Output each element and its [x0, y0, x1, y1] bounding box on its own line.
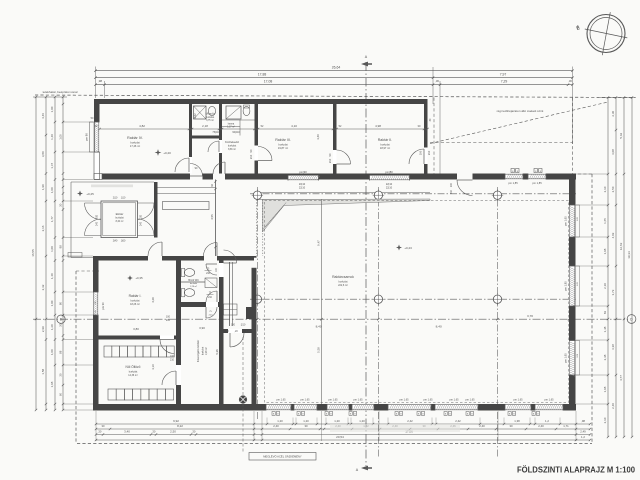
svg-text:1|60: 1|60 — [121, 240, 126, 243]
svg-text:2,10: 2,10 — [603, 283, 607, 289]
hall axis vertical center dash-dot — [377, 187, 379, 458]
door from Kozlekedo into Raktar IV — [175, 158, 189, 172]
hall axis vertical right dash-dot — [497, 187, 499, 458]
svg-text:200: 200 — [140, 214, 143, 219]
svg-text:FÖLDSZINTI ALAPRAJZ M 1:100: FÖLDSZINTI ALAPRAJZ M 1:100 — [517, 465, 635, 475]
hall east wall — [569, 174, 576, 408]
small wall x230 upper strip — [229, 262, 231, 326]
svg-text:pm 1,65: pm 1,65 — [328, 399, 338, 402]
svg-text:,98: ,98 — [98, 79, 103, 83]
washroom partition lines — [222, 126, 240, 128]
svg-text:100: 100 — [231, 324, 236, 327]
svg-text:2,16: 2,16 — [41, 225, 45, 231]
svg-text:210: 210 — [170, 358, 175, 361]
svg-text:16,55: 16,55 — [31, 249, 35, 257]
axis label D right circle — [627, 315, 636, 324]
hall column circle top left — [253, 191, 261, 199]
svg-text:telekhatár, beépítési vonal: telekhatár, beépítési vonal — [43, 90, 78, 94]
upper block left wall lower segment outline — [94, 152, 100, 180]
svg-text:1,00: 1,00 — [50, 300, 54, 306]
svg-text:8,40: 8,40 — [316, 325, 322, 329]
property boundary right dashed line upper — [572, 98, 574, 175]
Mosdo south partition wall — [192, 136, 222, 139]
svg-text:1,98: 1,98 — [603, 386, 607, 392]
svg-text:burkolat: burkolat — [115, 217, 124, 220]
hall west edge line upper — [256, 200, 258, 257]
Eloter double door west arcs — [85, 203, 102, 220]
left chain ticks — [35, 96, 37, 98]
svg-text:3,80: 3,80 — [133, 327, 139, 331]
compass inner circle — [590, 18, 622, 50]
left dimension chain lines — [35, 97, 37, 410]
east wall sill marks — [576, 205, 580, 237]
svg-text:5,42: 5,42 — [619, 133, 623, 139]
hall bottom wall pier x379 — [376, 404, 383, 411]
svg-text:75|210: 75|210 — [212, 131, 220, 134]
svg-text:2,42: 2,42 — [407, 419, 413, 423]
WC oval ffi with tank — [184, 269, 194, 277]
svg-text:3,80: 3,80 — [41, 151, 45, 157]
svg-text:3,72: 3,72 — [611, 289, 615, 295]
svg-text:240: 240 — [140, 221, 143, 226]
hall east wall window 2 — [569, 266, 576, 306]
svg-text:1,00: 1,00 — [58, 134, 62, 140]
svg-text:1,38: 1,38 — [514, 419, 520, 423]
old roof wedge shading — [263, 199, 431, 232]
svg-text:4,46: 4,46 — [41, 113, 45, 119]
svg-text:pm 1,65: pm 1,65 — [513, 399, 523, 402]
svg-text:17,88: 17,88 — [258, 72, 267, 76]
svg-text:Női Öltöző: Női Öltöző — [126, 365, 141, 369]
hall column circle mid right — [493, 295, 501, 303]
svg-text:3,38: 3,38 — [611, 344, 615, 350]
upper south wall window Raktar II pm80 — [370, 175, 410, 181]
svg-text:8,66 m²: 8,66 m² — [228, 148, 236, 151]
svg-text:pm 1,65: pm 1,65 — [353, 399, 363, 402]
svg-text:+0,25: +0,25 — [86, 192, 94, 196]
svg-text:9,26 m²: 9,26 m² — [205, 347, 208, 355]
svg-text:1,17 m²: 1,17 m² — [227, 126, 235, 129]
svg-text:pm 1,65: pm 1,65 — [276, 399, 286, 402]
WC oval noi with tank — [184, 289, 194, 297]
svg-text:2,42: 2,42 — [455, 419, 461, 423]
hall column circle mid left — [253, 295, 261, 303]
svg-text:7,29: 7,29 — [501, 79, 508, 83]
svg-text:210: 210 — [450, 189, 453, 194]
hall colonnade top edge lines — [257, 192, 431, 194]
svg-text:+0,35: +0,35 — [135, 276, 143, 280]
property boundary top dashed line — [35, 95, 635, 98]
svg-text:1,58: 1,58 — [41, 369, 45, 375]
svg-text:18,26 m²: 18,26 m² — [130, 303, 140, 306]
svg-text:burkolat: burkolat — [380, 143, 390, 147]
svg-text:30: 30 — [509, 424, 513, 428]
svg-text:Raktárcsarnok: Raktárcsarnok — [332, 275, 354, 279]
hall west wall door gap — [252, 258, 257, 269]
svg-text:100: 100 — [166, 315, 171, 318]
svg-text:98: 98 — [58, 245, 62, 249]
door into Mosdo — [208, 141, 219, 152]
svg-text:pm 90: pm 90 — [101, 302, 105, 310]
boiler room north wall — [224, 329, 252, 333]
svg-text:19,33: 19,33 — [627, 251, 631, 259]
svg-text:1,20: 1,20 — [359, 419, 365, 423]
walkway canopy lines — [158, 187, 216, 189]
section arrow A bottom — [361, 466, 372, 471]
Eloter east wall — [154, 182, 158, 238]
property boundary left dashed line — [75, 271, 77, 444]
WC corridor door arc — [206, 307, 217, 318]
Mosdo fixtures sink square — [194, 106, 207, 119]
svg-text:30: 30 — [304, 424, 308, 428]
svg-text:|210: |210 — [241, 324, 246, 327]
property boundary jog at hall corner — [573, 173, 593, 175]
hall inner dashed outline — [265, 201, 569, 403]
svg-text:1|10: 1|10 — [121, 197, 126, 200]
svg-text:2,28 m²: 2,28 m² — [190, 285, 197, 288]
svg-text:1,65: 1,65 — [603, 218, 607, 224]
svg-text:1,98: 1,98 — [603, 248, 607, 254]
svg-text:1,40: 1,40 — [50, 273, 54, 279]
svg-text:,30: ,30 — [152, 430, 156, 434]
door in mid wall — [160, 340, 174, 354]
corridor west wall — [176, 261, 181, 405]
svg-text:12,63: 12,63 — [619, 242, 623, 250]
svg-text:,30: ,30 — [568, 79, 572, 83]
hall top wall window 1 pm185 — [505, 174, 523, 180]
svg-text:Közlekedő: Közlekedő — [225, 140, 239, 144]
svg-text:burkolat: burkolat — [339, 280, 348, 283]
svg-text:18,97 m²: 18,97 m² — [380, 146, 390, 150]
upper block interior wall between Raktar IV and Mosdo — [189, 104, 192, 174]
right dimension chain lines — [607, 98, 609, 438]
hall top wall door opening — [457, 174, 473, 180]
svg-text:3,08: 3,08 — [611, 149, 615, 155]
svg-text:2,40: 2,40 — [273, 424, 279, 428]
property boundary right dashed line — [591, 174, 593, 444]
svg-text:1,20: 1,20 — [303, 419, 309, 423]
bottom chain extension lines — [95, 411, 97, 441]
lower block east wall — [219, 256, 224, 407]
svg-text:Raktár IV.: Raktár IV. — [127, 136, 143, 140]
svg-text:2,18: 2,18 — [202, 124, 208, 128]
svg-text:1,48: 1,48 — [603, 326, 607, 332]
hall bottom wall pier x321 — [318, 404, 326, 411]
left wall window outer sill — [90, 122, 95, 152]
interior wall between Mosdo zone and Kozlekedo — [219, 104, 222, 174]
svg-text:100: 100 — [419, 150, 423, 155]
hall west wall lower — [252, 256, 257, 404]
top extension lines — [95, 67, 97, 99]
svg-text:pm|80: pm|80 — [385, 170, 393, 174]
svg-text:1,40: 1,40 — [50, 134, 54, 140]
Eloter double door east arcs — [138, 203, 155, 220]
svg-text:pm 1,65: pm 1,65 — [544, 399, 554, 402]
svg-text:5,58: 5,58 — [316, 347, 320, 353]
courtyard dashed horizontal y142 — [430, 142, 573, 144]
svg-text:4,28: 4,28 — [151, 297, 155, 303]
upper block corner outline bottom left — [94, 174, 102, 180]
svg-text:burkolat: burkolat — [190, 282, 198, 285]
bottom dimension chain lines — [96, 423, 590, 425]
svg-text:3,10: 3,10 — [151, 364, 155, 370]
svg-text:1,41: 1,41 — [246, 330, 251, 333]
svg-text:200: 200 — [96, 214, 99, 219]
svg-text:2,30: 2,30 — [611, 111, 615, 117]
svg-text:Előtér: Előtér — [116, 212, 124, 216]
door opening into Raktar I — [148, 256, 162, 261]
lockers bottom row — [108, 389, 116, 400]
svg-text:burkolat: burkolat — [129, 370, 138, 373]
svg-text:pm 1,85: pm 1,85 — [508, 181, 518, 185]
wedge hatch strokes — [263, 224, 269, 231]
hall bottom wall pier x498 — [495, 404, 502, 411]
svg-text:2,40: 2,40 — [611, 403, 615, 409]
Eloter inner wall lines — [103, 203, 136, 236]
property boundary jog left — [76, 270, 99, 272]
WC partition wall — [181, 281, 205, 283]
upper block interior dimension line — [100, 128, 428, 130]
svg-text:210: 210 — [166, 319, 171, 322]
level mark +0,35 Raktar I — [127, 275, 133, 281]
svg-text:2|40: 2|40 — [113, 240, 118, 243]
hall column circle top center — [374, 191, 382, 199]
svg-text:régi tetőhéjazaton álló cseket: régi tetőhéjazaton álló csekett szint — [497, 109, 544, 113]
bottom chain ticks — [95, 423, 97, 425]
svg-text:ffi/női WC: ffi/női WC — [188, 279, 199, 282]
chimney symbol — [239, 396, 247, 404]
svg-text:2,38: 2,38 — [603, 354, 607, 360]
door opening in upper block south wall Kozlekedo exit — [213, 174, 225, 180]
svg-text:burkolat: burkolat — [131, 299, 140, 302]
svg-text:1,77: 1,77 — [50, 216, 54, 222]
door into Noi Oltozo — [162, 371, 176, 385]
compass north symbol outer circle — [587, 15, 625, 53]
courtyard wall vertical x215 — [215, 180, 217, 257]
right chain ticks — [607, 96, 609, 98]
svg-text:5,36: 5,36 — [215, 349, 219, 355]
svg-text:9,47: 9,47 — [316, 240, 320, 246]
svg-text:pm 1,65: pm 1,65 — [564, 353, 568, 363]
svg-text:4,82: 4,82 — [139, 124, 145, 128]
Raktar I mid wall — [99, 336, 182, 340]
svg-text:90|210: 90|210 — [232, 131, 240, 134]
door from courtyard into corridor — [224, 250, 237, 263]
svg-text:pm 1,65: pm 1,65 — [449, 399, 459, 402]
svg-text:2,10: 2,10 — [603, 186, 607, 192]
svg-text:Raktár II.: Raktár II. — [378, 138, 393, 142]
svg-text:2,50: 2,50 — [611, 186, 615, 192]
door opening in upper block south wall x196 — [190, 174, 203, 180]
svg-text:8,40: 8,40 — [436, 325, 442, 329]
svg-text:1,2: 1,2 — [545, 419, 549, 423]
old roof dashed diagonal — [430, 102, 608, 144]
axis label D left circle — [57, 315, 65, 323]
upper south wall window Raktar III pm90 — [288, 175, 319, 181]
svg-text:2,40: 2,40 — [538, 424, 544, 428]
chimney label box — [249, 453, 316, 461]
svg-text:+0,20: +0,20 — [163, 151, 171, 155]
compass needle line horizontal — [585, 29, 628, 38]
svg-text:20,54: 20,54 — [336, 435, 344, 439]
svg-text:2|10: 2|10 — [113, 197, 118, 200]
hall axis horizontal top dash-dot — [250, 193, 576, 195]
svg-text:1,20: 1,20 — [334, 419, 340, 423]
svg-text:22|10: 22|10 — [299, 187, 306, 190]
svg-text:9,92: 9,92 — [173, 419, 179, 423]
svg-text:Raktár I.: Raktár I. — [129, 294, 142, 298]
axis line D horizontal dash-dot — [33, 318, 628, 320]
chimney flue dashed up — [242, 337, 244, 396]
svg-text:1,00: 1,00 — [50, 187, 54, 193]
hall west wall pier — [246, 307, 252, 319]
svg-text:30: 30 — [58, 373, 62, 377]
svg-text:2,10: 2,10 — [603, 417, 607, 423]
svg-text:82: 82 — [603, 311, 607, 315]
svg-text:1,00: 1,00 — [50, 349, 54, 355]
svg-text:4,10: 4,10 — [291, 124, 297, 128]
kamra shelf line — [222, 119, 255, 121]
level mark +0,25 at terrace — [77, 191, 83, 197]
hall level mark +0,23 — [396, 245, 402, 251]
shower square second washroom — [226, 106, 241, 119]
svg-text:30: 30 — [102, 424, 105, 428]
svg-text:17,08: 17,08 — [264, 79, 273, 83]
left wall window pm90 — [94, 122, 100, 152]
svg-text:8,40 m²: 8,40 m² — [116, 220, 124, 223]
interior wall between Raktar III and Raktar II — [333, 104, 337, 174]
svg-text:210: 210 — [328, 158, 332, 163]
WC stall door upper — [206, 264, 217, 275]
svg-text:3,40: 3,40 — [124, 430, 130, 434]
door in Raktar II east wall — [409, 149, 424, 164]
svg-text:14,36 m²: 14,36 m² — [128, 374, 138, 377]
svg-text:1,00: 1,00 — [50, 106, 54, 112]
interior wall between Kozlekedo and Raktar III — [255, 104, 259, 174]
section line A vertical dash-dot — [365, 62, 367, 466]
svg-text:burkolat: burkolat — [206, 116, 215, 119]
svg-text:100: 100 — [450, 182, 453, 187]
top dimension line 17,08 and 7,29 — [96, 84, 573, 86]
svg-text:pm 1,65: pm 1,65 — [465, 399, 475, 402]
WC oval upper washroom — [243, 106, 250, 115]
WC niche closet — [205, 278, 217, 288]
left wall small ledge — [68, 253, 82, 258]
hall axis vertical left dash-dot — [256, 187, 258, 420]
hall bottom wall — [252, 404, 577, 411]
scanner smudge artifact — [330, 424, 460, 432]
svg-text:19,87 m²: 19,87 m² — [278, 146, 288, 150]
svg-text:60: 60 — [58, 393, 62, 397]
svg-text:1,20: 1,20 — [277, 419, 283, 423]
svg-text:3,62: 3,62 — [193, 113, 197, 119]
svg-text:240: 240 — [96, 221, 99, 226]
Eloter lobby box — [101, 201, 138, 238]
svg-text:30: 30 — [58, 323, 62, 327]
svg-text:4,55: 4,55 — [210, 214, 214, 220]
svg-text:pm|90: pm|90 — [299, 170, 307, 174]
hall east wall window 3 — [569, 341, 576, 376]
left chain extension lines — [63, 121, 93, 123]
svg-text:3,75 m²: 3,75 m² — [206, 119, 214, 122]
svg-text:burkolat: burkolat — [202, 347, 205, 356]
column markers 8|8 bottom wall — [272, 412, 275, 416]
hall top wall east section — [430, 174, 576, 180]
svg-text:1,2: 1,2 — [581, 435, 585, 439]
svg-text:3,40: 3,40 — [316, 134, 320, 140]
svg-text:+0,23: +0,23 — [404, 246, 412, 250]
svg-text:pm 1,85: pm 1,85 — [532, 181, 542, 185]
property boundary bottom dashed line — [77, 443, 592, 445]
hall east wall window 1 — [569, 205, 576, 237]
door into Raktar III — [258, 147, 272, 161]
svg-text:8,22: 8,22 — [177, 424, 183, 428]
svg-text:pm 1,85: pm 1,85 — [564, 281, 568, 291]
WC stall door lower — [206, 291, 217, 302]
Mosdo sink oval — [208, 106, 215, 115]
svg-text:burkolat: burkolat — [278, 143, 288, 147]
upper block top wall — [94, 99, 428, 104]
svg-text:22|10: 22|10 — [386, 187, 393, 190]
door into Raktar II — [337, 150, 351, 164]
left wall window Raktar I — [93, 292, 99, 315]
lower block bottom wall — [93, 404, 256, 411]
upper block bottom wall — [102, 174, 430, 180]
terrace paving strip — [91, 185, 133, 188]
svg-text:3,90: 3,90 — [199, 326, 205, 330]
svg-text:,30: ,30 — [435, 79, 439, 83]
hall bottom wall windows — [266, 404, 291, 411]
right chain extension lines — [576, 173, 608, 175]
svg-text:26,64: 26,64 — [332, 65, 341, 69]
hall interior divider line x321 — [321, 200, 323, 405]
recess niche lines — [224, 304, 238, 315]
svg-text:2,50: 2,50 — [170, 430, 176, 434]
svg-text:2,49: 2,49 — [580, 430, 586, 434]
lockers top row — [104, 346, 112, 357]
lower block left wall — [93, 256, 99, 411]
svg-text:1,00: 1,00 — [50, 246, 54, 252]
walkway ramp rectangle — [163, 202, 210, 210]
svg-text:,30: ,30 — [98, 430, 102, 434]
svg-text:1,71: 1,71 — [563, 424, 569, 428]
door opening into WC lobby — [204, 256, 217, 261]
chimney leader dashed — [242, 404, 244, 453]
svg-text:3,70: 3,70 — [527, 314, 533, 318]
svg-text:4,02: 4,02 — [611, 232, 615, 238]
svg-text:210: 210 — [249, 154, 253, 159]
svg-text:4,77: 4,77 — [619, 375, 623, 381]
column markers 8|8 top wall — [511, 169, 514, 173]
svg-text:,30: ,30 — [192, 430, 196, 434]
svg-text:222,6 m²: 222,6 m² — [338, 284, 348, 287]
hall top wall window 2 pm185 — [528, 174, 546, 180]
compass needle line vertical — [602, 12, 610, 55]
svg-text:80: 80 — [58, 302, 62, 306]
svg-text:88: 88 — [58, 350, 62, 354]
svg-text:1,90: 1,90 — [41, 184, 45, 190]
top dimension line 17,88 and 7,97 — [96, 77, 573, 79]
right chain top ticks header — [600, 97, 636, 99]
svg-text:2,99: 2,99 — [41, 326, 45, 332]
svg-text:30: 30 — [58, 203, 62, 207]
hall column circle top right — [493, 191, 501, 199]
top dimension line 26,64 — [96, 70, 573, 72]
courtyard dashed line vertical x434 — [433, 98, 435, 174]
boiler room door — [230, 333, 244, 347]
svg-text:,98: ,98 — [581, 419, 585, 423]
svg-text:pm 90: pm 90 — [85, 133, 89, 141]
